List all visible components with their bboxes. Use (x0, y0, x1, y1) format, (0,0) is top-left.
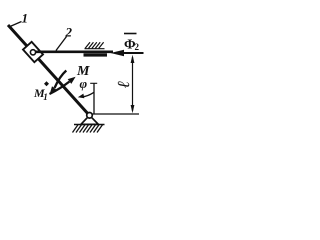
svg-text:2: 2 (135, 42, 140, 52)
angle arc phi (82, 92, 94, 97)
horizontal extension line at pivot level (92, 113, 139, 115)
leader line for label 2 (56, 37, 67, 51)
leader line for label 1 (10, 22, 22, 27)
support base line (74, 124, 105, 126)
fixed guide lower bar (84, 53, 108, 56)
small diamond marker (44, 81, 49, 86)
pivot support triangle (81, 115, 98, 124)
svg-text:M: M (76, 64, 90, 79)
rod 2 (horizontal link) (35, 50, 113, 53)
label Phi2 with overbar (124, 33, 137, 35)
slider block on rod 1 (23, 42, 43, 62)
dimension line l (vertical with arrows both ends) (132, 57, 134, 111)
pin joint of slider (30, 50, 35, 55)
moment arrow M (curved, head up-right) (50, 82, 70, 95)
fixed guide upper hatched part (85, 48, 105, 50)
svg-text:2: 2 (65, 25, 73, 40)
moment arrow M1 (curved, head down-left) (55, 71, 67, 89)
svg-text:1: 1 (22, 11, 29, 26)
force vector F2 (arrow pointing left along rod 2) (122, 52, 144, 54)
rod 1 (diagonal link from top-left to pivot) (8, 25, 90, 116)
vertical reference line at pivot (93, 84, 95, 114)
svg-text:1: 1 (43, 92, 48, 102)
pivot pin circle (87, 113, 93, 119)
svg-text:ℓ: ℓ (114, 81, 133, 88)
support hatching (73, 125, 103, 133)
